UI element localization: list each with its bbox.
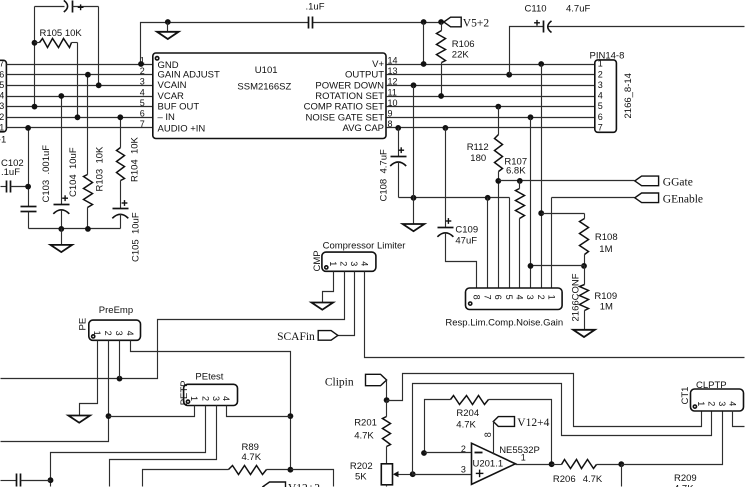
node pin4-line / PEtest junction <box>288 413 294 419</box>
wire net row1 left-connector to U101 pin7 <box>7 127 153 129</box>
node R108-top junction <box>538 210 544 216</box>
op-amp/IC U101 SSM2166SZ box <box>153 53 386 139</box>
svg-text:GAIN ADJUST: GAIN ADJUST <box>158 70 220 81</box>
wire R89-node to bottom edge <box>291 470 334 487</box>
node pin13/OUTPUT row junction <box>506 72 512 78</box>
svg-text:CLPTP: CLPTP <box>696 380 727 391</box>
wire op-amp -in <box>425 452 472 454</box>
svg-text:R103 10K: R103 10K <box>95 146 106 192</box>
wire R108 top branch <box>542 213 585 215</box>
node GGate / R107 junction <box>517 178 523 184</box>
node GND-rail ground stem <box>165 19 171 25</box>
U101 pin 8 label AVG CAP <box>342 119 392 134</box>
wire outer loop to CLPTP pin2 <box>413 384 712 475</box>
resistor R201 4.7K <box>354 401 390 464</box>
svg-text:U101: U101 <box>255 65 278 76</box>
svg-text:2: 2 <box>339 261 349 266</box>
svg-text:U201.1: U201.1 <box>473 458 504 469</box>
node Clipin/R201 junction <box>384 397 390 403</box>
svg-text:6: 6 <box>598 112 603 122</box>
svg-text:5: 5 <box>140 98 145 108</box>
svg-text:2166_8-14: 2166_8-14 <box>623 73 634 118</box>
node PreEmp pin2 junction <box>106 413 112 419</box>
U101 pin 13 label OUTPUT <box>345 66 398 81</box>
svg-text:14: 14 <box>388 55 398 65</box>
svg-text:2: 2 <box>707 401 717 406</box>
svg-text:1M: 1M <box>599 244 612 255</box>
resistor R204 4.7K <box>425 396 552 465</box>
capacitor C109 47uF <box>437 128 478 289</box>
wire AUDIO+IN drop / C103 <box>21 128 37 229</box>
wire net row2 left-connector to U101 pin6 <box>7 117 153 119</box>
svg-text:6.8K: 6.8K <box>506 166 526 177</box>
ground rail (bottom-left) <box>29 228 121 230</box>
svg-text:4: 4 <box>0 91 4 101</box>
svg-text:2: 2 <box>140 66 145 76</box>
svg-text:3: 3 <box>461 465 466 475</box>
svg-text:– IN: – IN <box>158 112 176 123</box>
node R108/R109 junction <box>581 263 587 269</box>
U101 pin 12 label POWER DOWN <box>315 77 397 92</box>
connector PE (PreEmp) <box>78 305 141 340</box>
node pin3-row / loop junction <box>410 471 416 477</box>
svg-text:6: 6 <box>493 295 503 300</box>
capacitor C104 10uF <box>53 97 79 229</box>
svg-text:PEtest: PEtest <box>195 372 223 383</box>
svg-text:C109: C109 <box>455 225 478 236</box>
node C102 junction <box>25 184 31 190</box>
svg-text:C103 .001uF: C103 .001uF <box>41 145 52 203</box>
wire op-amp output <box>516 464 552 466</box>
wire R105-right down to -IN row <box>77 43 79 118</box>
svg-text:3: 3 <box>349 261 359 266</box>
U101 pin 11 label ROTATION SET <box>315 87 397 102</box>
resistor R107 6.8K <box>504 157 527 289</box>
svg-text:3: 3 <box>717 401 727 406</box>
svg-text:SCAFin: SCAFin <box>277 331 315 343</box>
wire net row7 left-connector to U101 pin1 <box>7 64 153 66</box>
svg-text:V12+2: V12+2 <box>288 482 320 487</box>
svg-text:5: 5 <box>598 101 603 111</box>
node VCAR row junction <box>58 93 64 99</box>
power flag V12+2 (bottom, cut) <box>263 482 320 487</box>
svg-text:2166CONF: 2166CONF <box>570 273 581 321</box>
svg-text:PIN14-8: PIN14-8 <box>590 51 625 62</box>
label C103 .001uF <box>41 145 52 203</box>
svg-text:4: 4 <box>728 401 738 406</box>
resistor R104 10K <box>117 118 141 209</box>
connector PIN14-8 (2166_8-14) <box>590 51 635 133</box>
wire op-amp +in <box>413 474 472 476</box>
U101 pin 4 label VCAR <box>140 87 184 102</box>
power flag V12+4 <box>493 417 549 429</box>
wire PEtest pin1 to PreEmp pin2 line <box>109 406 195 417</box>
connector CMP (Compressor Limiter) <box>312 241 406 272</box>
svg-text:R104 10K: R104 10K <box>130 136 141 182</box>
svg-text:47uF: 47uF <box>455 235 477 246</box>
capacitor C105 10uF <box>112 200 141 262</box>
wire conn pin5 drop <box>509 198 511 289</box>
wire net row14 U101 to PIN14-8 <box>387 64 595 66</box>
svg-text:GEnable: GEnable <box>663 193 703 205</box>
connector J? 7-1 (left edge, partially cut) <box>0 59 6 146</box>
wire V+ to conn pin2 <box>541 65 543 289</box>
svg-text:VCAR: VCAR <box>158 91 185 102</box>
U101 pin 10 label COMP RATIO SET <box>304 98 398 113</box>
svg-text:CMP: CMP <box>312 250 323 271</box>
node output / R204 junction <box>549 461 555 467</box>
svg-text:3: 3 <box>140 77 145 87</box>
svg-text:Clipin: Clipin <box>325 376 354 388</box>
node pin1 GND junction <box>138 61 144 67</box>
node GGate / R112 junction <box>495 178 501 184</box>
svg-text:2: 2 <box>461 444 466 454</box>
node pin8 row junctions <box>395 125 448 131</box>
wire PEtest pin4 to R89 vert <box>227 406 291 417</box>
svg-text:4.7K: 4.7K <box>456 420 476 431</box>
node conn pin7 junction <box>485 195 491 201</box>
svg-text:4.7K: 4.7K <box>583 474 603 485</box>
node rail/C104/ground junction <box>58 226 64 232</box>
svg-text:OUTPUT: OUTPUT <box>345 70 384 81</box>
svg-text:.1uF: .1uF <box>1 167 20 178</box>
flag SCAFin <box>277 331 338 343</box>
node pin9 row junction <box>528 114 534 120</box>
svg-text:GGate: GGate <box>663 176 693 188</box>
connector 2166CONF (Resp.Lim.Comp.Noise.Gain) <box>445 273 581 328</box>
svg-text:6: 6 <box>0 69 4 79</box>
U101 pin 3 label VCAIN <box>140 77 187 92</box>
wire PreEmp pin4 net <box>131 341 291 470</box>
capacitor C110 4.7uF <box>510 3 745 74</box>
wire V+ branch down to pin14 row <box>423 23 425 65</box>
svg-text:1: 1 <box>696 401 706 406</box>
wire CMP pin4 long net <box>365 272 745 358</box>
wire PreEmp pin1 to ground <box>80 341 98 416</box>
svg-text:7-1: 7-1 <box>0 134 6 145</box>
svg-text:R109: R109 <box>594 291 617 302</box>
svg-text:PETP: PETP <box>179 380 190 405</box>
svg-text:4.7K: 4.7K <box>674 483 694 487</box>
node VCAIN row junction <box>96 82 102 88</box>
node GAIN ADJUST row junction <box>85 72 91 78</box>
capacitor C? (bottom-left) <box>1 474 51 487</box>
node V5+2 / R106 junction <box>438 19 444 25</box>
wire PEtest pin2 net <box>51 406 206 487</box>
flag GEnable <box>635 193 703 205</box>
svg-text:PreEmp: PreEmp <box>99 305 133 316</box>
svg-text:8: 8 <box>472 295 482 300</box>
ground (pin12 / C108) <box>403 224 425 231</box>
capacitor C108 4.7uF <box>379 128 407 202</box>
svg-text:22K: 22K <box>452 50 470 61</box>
svg-text:.1uF: .1uF <box>306 1 325 12</box>
svg-text:C108 4.7uF: C108 4.7uF <box>379 149 390 201</box>
node pin12-vert / gnd-line junction <box>411 195 417 201</box>
wire net row4 left-connector to U101 pin4 <box>7 96 153 98</box>
wire R209 drop (cut at bottom) <box>621 465 623 487</box>
U101 pin 2 label GAIN ADJUST <box>140 66 220 81</box>
resistor R103 10K <box>84 75 106 229</box>
wire net row3 left-connector to U101 pin5 <box>7 106 153 108</box>
flag Clipin <box>325 374 387 388</box>
svg-text:Compressor Limiter: Compressor Limiter <box>323 241 406 252</box>
svg-text:R206: R206 <box>553 474 576 485</box>
resistor R106 22K <box>437 23 475 97</box>
svg-text:C104 10uF: C104 10uF <box>68 147 79 197</box>
node -IN row / R105 junction <box>75 114 81 120</box>
label R209 4.7K <box>674 473 697 487</box>
svg-text:3: 3 <box>598 80 603 90</box>
wire GGate net <box>499 180 635 182</box>
svg-text:NOISE GATE SET: NOISE GATE SET <box>306 112 385 123</box>
node PreEmp pin3 junction <box>117 376 123 382</box>
wire cap-right down to VCAIN row <box>98 7 100 86</box>
svg-text:4: 4 <box>598 91 603 101</box>
svg-text:3: 3 <box>525 295 535 300</box>
svg-text:R201: R201 <box>354 418 377 429</box>
svg-text:V+: V+ <box>372 59 384 70</box>
wire PreEmp pin2 net <box>1 341 109 442</box>
node R206 / R209 junction <box>618 461 624 467</box>
svg-text:3: 3 <box>0 101 4 111</box>
wire CMP pin1 to ground <box>323 272 334 303</box>
wire POWER DOWN to ground <box>413 86 415 225</box>
U101 pin 6 label – IN <box>140 109 175 124</box>
wire net row12 U101 to PIN14-8 <box>387 85 595 87</box>
svg-text:R108: R108 <box>595 232 618 243</box>
svg-text:7: 7 <box>140 119 145 129</box>
wire cap-left down to BUF OUT row <box>34 7 36 107</box>
svg-text:V5+2: V5+2 <box>463 18 490 30</box>
svg-text:2: 2 <box>201 396 211 401</box>
svg-text:3: 3 <box>114 331 124 336</box>
wire Clipin to CLPTP pin1 <box>387 374 702 427</box>
flag GGate <box>635 176 693 188</box>
wire Clipin drop <box>386 381 388 401</box>
svg-text:C105 10uF: C105 10uF <box>131 212 142 262</box>
svg-text:CT1: CT1 <box>680 387 691 405</box>
svg-text:1M: 1M <box>600 302 613 313</box>
svg-text:3: 3 <box>211 396 221 401</box>
wire GEnable net <box>552 198 635 289</box>
wire PreEmp pin3 stub <box>119 341 121 379</box>
capacitor .1uF (bypass) <box>306 1 325 28</box>
svg-text:1: 1 <box>92 331 102 336</box>
svg-text:4.7uF: 4.7uF <box>566 3 590 14</box>
node row7 drop junction <box>25 125 31 131</box>
svg-text:1: 1 <box>547 295 557 300</box>
node op-amp -in junction <box>421 450 427 456</box>
wire net row5 left-connector to U101 pin3 <box>7 85 153 87</box>
node pin11 row / R106 junction <box>438 93 444 99</box>
capacitor C102 .1uF <box>1 158 29 193</box>
ground (top, near U101) <box>157 23 179 40</box>
svg-text:ROTATION SET: ROTATION SET <box>315 91 384 102</box>
ground (CMP pin1) <box>312 303 334 310</box>
svg-text:5K: 5K <box>355 471 367 482</box>
node pin12 row junction <box>411 82 417 88</box>
wire GND rail (U101 pin1 to bypass cap) <box>141 23 444 65</box>
svg-text:NE5532P: NE5532P <box>499 445 540 456</box>
node pin10 row junction <box>495 104 501 110</box>
wire PEtest pin3 net <box>110 406 217 487</box>
svg-text:6: 6 <box>140 109 145 119</box>
svg-text:VCAIN: VCAIN <box>158 80 187 91</box>
U101 pin 7 label AUDIO +IN <box>140 119 206 134</box>
node R89 / V12 junction <box>288 467 294 473</box>
op-amp U201.1 NE5532P <box>461 432 540 484</box>
svg-text:R105 10K: R105 10K <box>40 28 83 39</box>
svg-text:AUDIO +IN: AUDIO +IN <box>158 123 206 134</box>
ground (PreEmp pin1) <box>68 416 90 423</box>
node V+ rail / pin14 branch <box>421 19 427 25</box>
svg-text:PE: PE <box>78 318 89 331</box>
svg-text:7: 7 <box>482 295 492 300</box>
svg-text:4: 4 <box>221 396 231 401</box>
wire net row11 U101 to PIN14-8 <box>387 96 595 98</box>
node bottom cap junction <box>48 477 54 483</box>
wire CMP pin2 net <box>1 272 345 379</box>
svg-text:11: 11 <box>388 87 397 97</box>
capacitor C? (top-left, polarized) <box>35 0 99 12</box>
ground (bottom-left rail) <box>51 229 73 253</box>
resistor R108 1M <box>580 214 618 266</box>
svg-text:1: 1 <box>328 261 338 266</box>
svg-text:C110: C110 <box>525 3 547 14</box>
wire COMP RATIO SET to conn pin3 <box>530 118 532 289</box>
wire CMP pin3 to SCAFin <box>338 272 355 336</box>
U101 pin 9 label NOISE GATE SET <box>306 109 393 124</box>
resistor R89 4.7K <box>143 442 291 487</box>
wire net row8 U101 to PIN14-8 <box>387 127 595 129</box>
svg-text:4: 4 <box>515 295 525 300</box>
svg-text:R112: R112 <box>467 142 489 153</box>
svg-text:1: 1 <box>189 396 199 401</box>
resistor R105 10K <box>35 28 83 47</box>
resistor R206 4.7K <box>552 460 622 486</box>
svg-text:AVG CAP: AVG CAP <box>342 123 384 134</box>
node conn pin3 / jct <box>528 263 534 269</box>
svg-text:SSM2166SZ: SSM2166SZ <box>237 81 291 92</box>
resistor R112 180 <box>467 107 503 289</box>
svg-text:5: 5 <box>504 295 514 300</box>
wire net row6 left-connector to U101 pin2 <box>7 74 153 76</box>
node BUF OUT / row5 junction <box>32 104 38 110</box>
connector PETP (PEtest) <box>179 372 238 406</box>
svg-text:2: 2 <box>0 112 4 122</box>
svg-text:4.7K: 4.7K <box>354 431 374 442</box>
svg-text:5: 5 <box>0 80 4 90</box>
wire to CLPTP pin3 <box>622 411 723 465</box>
svg-text:POWER DOWN: POWER DOWN <box>315 80 384 91</box>
svg-text:4: 4 <box>125 331 135 336</box>
svg-text:COMP RATIO SET: COMP RATIO SET <box>304 102 385 113</box>
wire conn pin7 drop <box>487 198 489 289</box>
svg-text:2: 2 <box>103 331 113 336</box>
svg-text:V12+4: V12+4 <box>517 417 549 429</box>
svg-text:8: 8 <box>483 432 493 437</box>
wire net row10 U101 to PIN14-8 <box>387 106 595 108</box>
U101 pin 5 label BUF OUT <box>140 98 200 113</box>
svg-text:Resp.Lim.Comp.Noise.Gain: Resp.Lim.Comp.Noise.Gain <box>445 317 563 328</box>
node -IN row / R104 junction <box>117 114 123 120</box>
power flag V5+2 <box>444 17 490 29</box>
svg-text:7: 7 <box>0 59 4 69</box>
resistor R109 1M <box>580 266 618 330</box>
svg-text:180: 180 <box>470 153 486 164</box>
svg-text:R106: R106 <box>452 39 475 50</box>
svg-text:7: 7 <box>598 123 603 133</box>
node rail/R103 junction <box>85 226 91 232</box>
svg-text:4: 4 <box>140 87 145 97</box>
ground (R109) <box>573 330 595 337</box>
svg-text:2: 2 <box>598 69 603 79</box>
svg-text:R204: R204 <box>456 408 479 419</box>
wire net row9 U101 to PIN14-8 <box>387 117 595 119</box>
potentiometer R202 5K <box>350 461 413 486</box>
svg-text:BUF OUT: BUF OUT <box>158 102 200 113</box>
wire C108 bottom to GEnable-net <box>399 197 510 199</box>
U101 pin 14 label V+ <box>372 55 397 70</box>
U101 pin 1 label GND <box>140 55 179 71</box>
connector CT1 (CLPTP) <box>680 380 744 411</box>
svg-text:4.7K: 4.7K <box>242 452 262 463</box>
svg-text:4: 4 <box>360 261 370 266</box>
wire V12+4 to op-amp pin8 <box>493 422 495 455</box>
svg-text:2: 2 <box>536 295 546 300</box>
wire R108-R109 to conn pin3 <box>531 265 585 267</box>
wire net row13 U101 to PIN14-8 <box>387 74 595 76</box>
wire CLPTP pin4 to right edge <box>733 411 745 427</box>
node pin14 row junctions <box>421 61 544 67</box>
node R105-left junction <box>32 40 38 46</box>
svg-text:1: 1 <box>0 123 4 133</box>
